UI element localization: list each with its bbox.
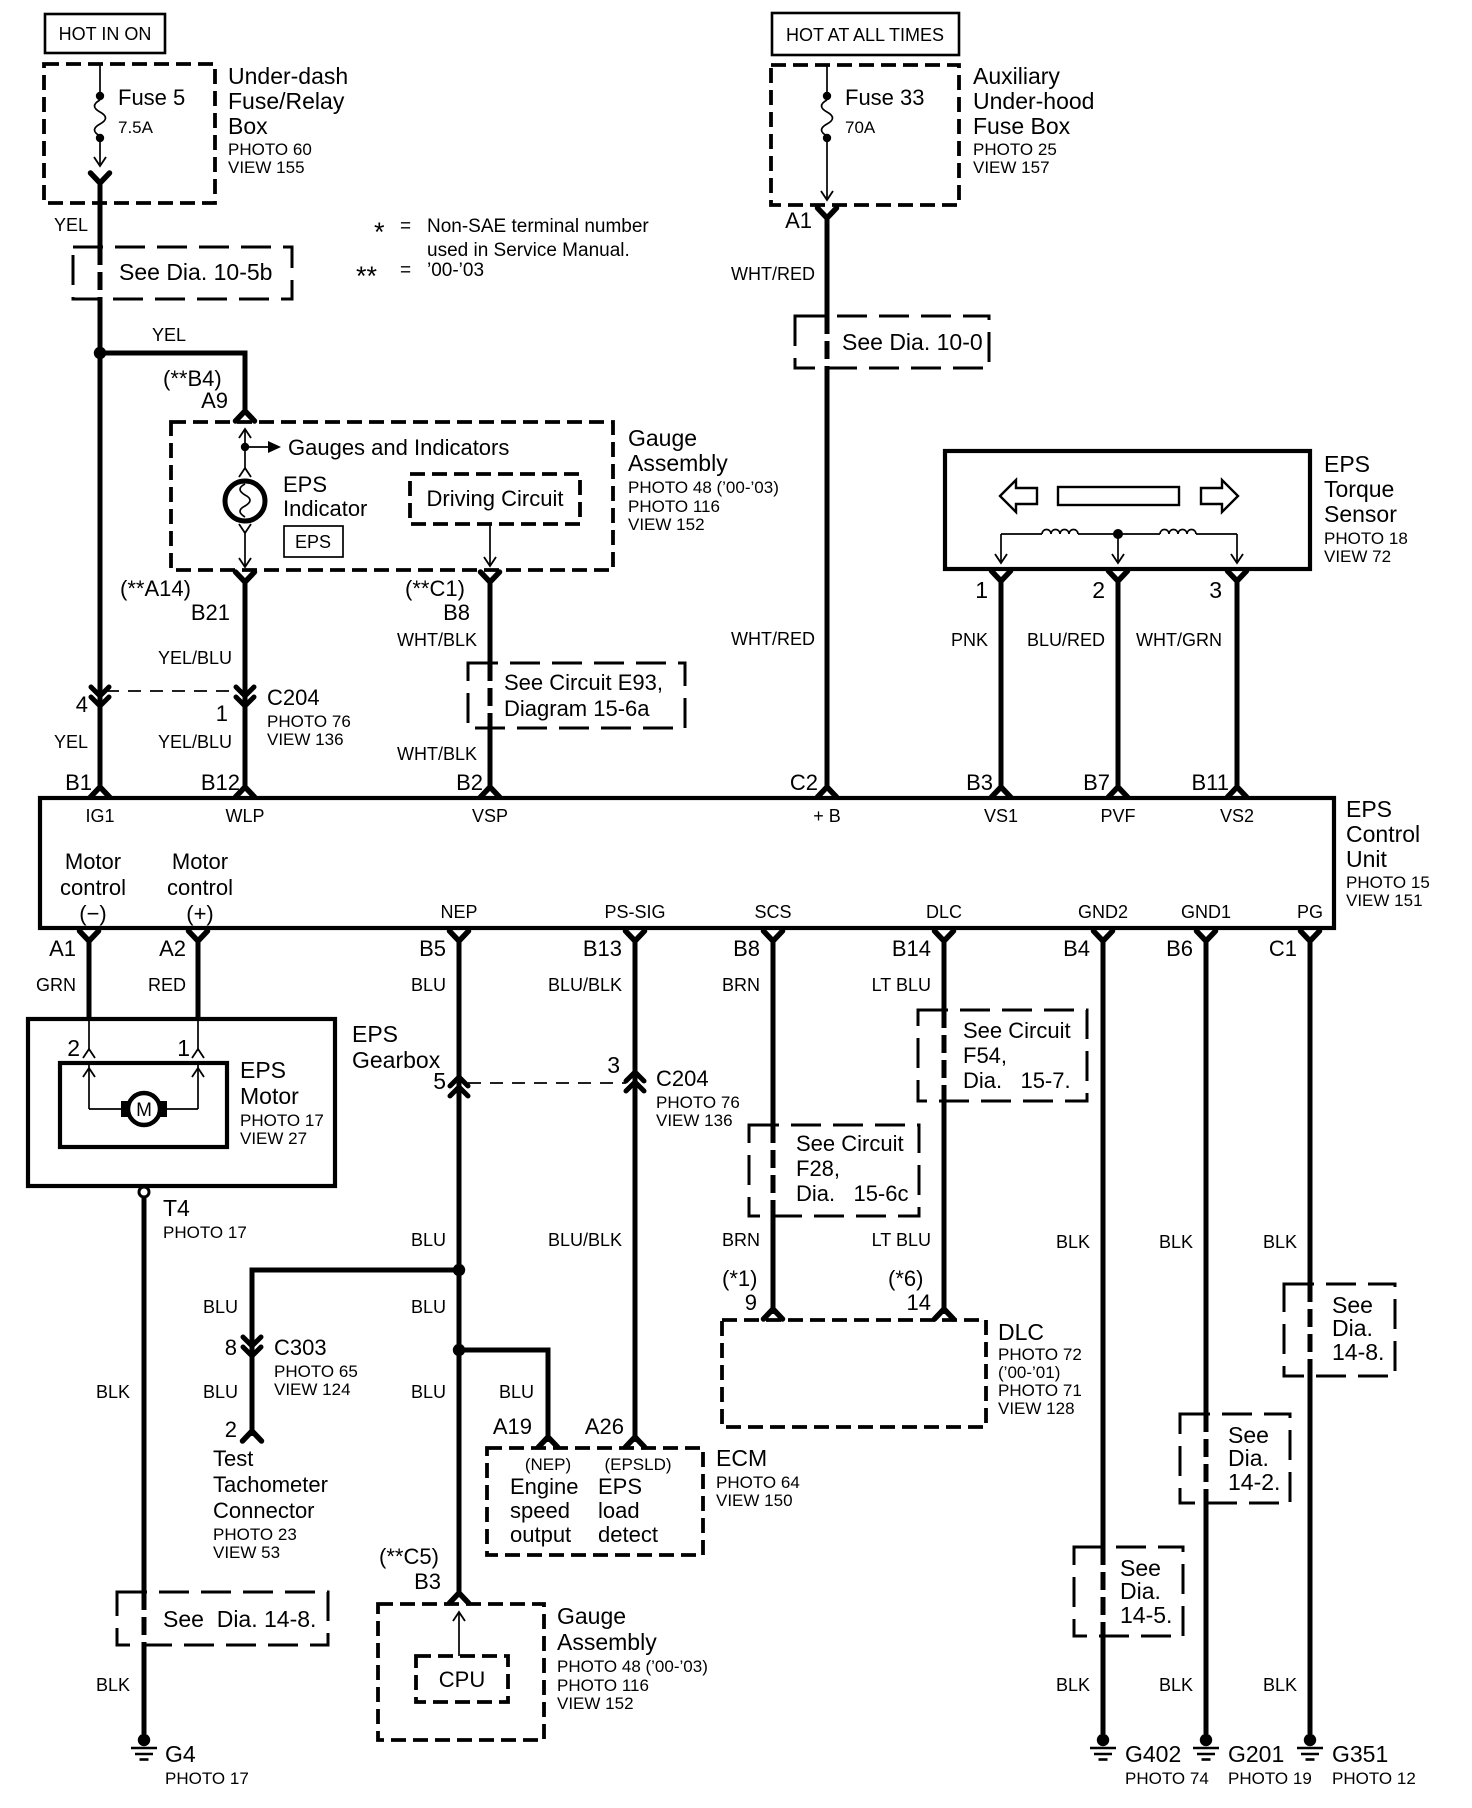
svg-text:Assembly: Assembly [557,1629,657,1655]
node gauges branch [241,443,249,451]
svg-text:2: 2 [67,1035,80,1061]
gauge assembly box [171,422,613,570]
svg-text:EPS: EPS [352,1021,398,1047]
svg-text:Test: Test [213,1446,253,1471]
svg-text:EPS: EPS [283,472,327,497]
svg-text:BLU/BLK: BLU/BLK [548,1230,622,1250]
EPS indicator label [283,472,367,521]
svg-text:14-8.: 14-8. [1332,1339,1384,1365]
svg-text:C1: C1 [1269,936,1297,961]
EPS motor box [60,1063,227,1147]
node junction B5 lower [453,1344,465,1356]
svg-text:BLU: BLU [203,1297,238,1317]
svg-text:G201: G201 [1228,1741,1284,1767]
wire label WHT/RED [731,264,815,284]
svg-text:PHOTO 64: PHOTO 64 [716,1473,800,1492]
svg-text:PHOTO 17: PHOTO 17 [240,1111,324,1130]
svg-text:Torque: Torque [1324,476,1394,502]
svg-text:1: 1 [177,1035,190,1061]
dashed link C204 [106,690,238,692]
connector B13 out of control unit [583,931,645,961]
torque sensor left arrow [1000,480,1037,512]
svg-text:GND2: GND2 [1078,902,1128,922]
svg-text:BLU: BLU [499,1382,534,1402]
connector A1 fuse 33 output [785,208,836,233]
see circuit F28 box [749,1125,919,1216]
svg-text:EPS: EPS [295,532,331,552]
wire WHT/BLK B8 to B2 [488,580,493,781]
arrow to gauges and indicators [245,435,509,460]
pin label (**B4) A9 [163,366,228,413]
svg-text:NEP: NEP [440,902,477,922]
svg-text:SCS: SCS [754,902,791,922]
svg-text:EPS: EPS [240,1057,286,1083]
svg-text:PHOTO 76: PHOTO 76 [267,712,351,731]
svg-text:Dia.: Dia. [1228,1445,1269,1471]
fuse F5 symbol [94,65,106,166]
node torque sensor center tap [1113,529,1123,539]
svg-text:PHOTO 60: PHOTO 60 [228,140,312,159]
connector pin 9 into DLC [764,1298,783,1319]
connector C303 label [274,1335,358,1399]
wire label YEL/BLU upper [158,648,232,668]
svg-text:VIEW 157: VIEW 157 [973,158,1050,177]
node junction B5 upper [453,1264,465,1276]
gauge assembly lower box [378,1604,544,1740]
torque sensor bar [1058,487,1179,505]
see dia 10-5b box [73,247,292,299]
svg-text:VIEW 53: VIEW 53 [213,1543,280,1562]
control unit motor control labels [60,849,233,926]
svg-text:B7: B7 [1083,770,1110,795]
svg-text:Under-hood: Under-hood [973,88,1094,114]
svg-text:7.5A: 7.5A [118,118,154,137]
svg-text:Gauge: Gauge [628,425,697,451]
pin label (**C1) B8 [405,576,470,625]
connector A19 into ECM [493,1414,558,1447]
svg-text:BLK: BLK [1159,1675,1193,1695]
svg-text:output: output [510,1522,571,1547]
svg-text:PHOTO 17: PHOTO 17 [165,1769,249,1788]
wire label BLK left [96,1382,130,1402]
svg-text:Dia.: Dia. [1120,1578,1161,1604]
svg-text:A19: A19 [493,1414,532,1439]
internal arrow to CPU [453,1612,465,1656]
wire BLK C1 to G351 [1308,938,1313,1734]
wire label WHT/BLK upper [397,630,477,650]
wire GRN A1 to gearbox [87,938,92,1021]
svg-text:See Circuit E93,: See Circuit E93, [504,670,663,695]
svg-text:A26: A26 [585,1414,624,1439]
svg-text:B5: B5 [419,936,446,961]
svg-text:HOT AT ALL TIMES: HOT AT ALL TIMES [786,25,944,45]
svg-text:EPS: EPS [598,1474,642,1499]
svg-text:B6: B6 [1166,936,1193,961]
svg-text:PHOTO 48 (’00-’03): PHOTO 48 (’00-’03) [557,1657,708,1676]
svg-text:BLK: BLK [1263,1675,1297,1695]
svg-text:B12: B12 [201,770,240,795]
torque sensor coil left [1001,530,1118,535]
svg-text:EPS: EPS [1324,451,1370,477]
svg-text:(−): (−) [79,901,107,926]
svg-text:GRN: GRN [36,975,76,995]
svg-text:BRN: BRN [722,975,760,995]
svg-text:PS-SIG: PS-SIG [604,902,665,922]
connector C204 label [267,685,351,749]
svg-text:Box: Box [228,113,268,139]
svg-text:PG: PG [1297,902,1323,922]
svg-text:Motor: Motor [172,849,228,874]
svg-text:G402: G402 [1125,1741,1181,1767]
under-dash fuse/relay box [44,64,215,203]
svg-text:PHOTO 19: PHOTO 19 [1228,1769,1312,1788]
connector B2 into control unit [481,776,500,797]
EPS tag box [284,526,343,557]
ECM pin functions [510,1455,672,1547]
svg-text:Gearbox: Gearbox [352,1047,441,1073]
torque sensor pin 1 [975,571,1010,603]
svg-text:PHOTO 74: PHOTO 74 [1125,1769,1209,1788]
svg-text:Sensor: Sensor [1324,501,1397,527]
svg-text:BLK: BLK [96,1382,130,1402]
svg-text:load: load [598,1498,640,1523]
pin label (*6) 14 [888,1266,931,1315]
wire PNK pin1 to B3 [951,578,1001,781]
svg-text:Assembly: Assembly [628,450,728,476]
svg-text:BLU/RED: BLU/RED [1027,630,1105,650]
svg-text:Tachometer: Tachometer [213,1472,328,1497]
connector B1 into control unit [91,776,110,797]
svg-text:YEL: YEL [54,732,88,752]
svg-text:F54,: F54, [963,1043,1007,1068]
svg-text:A1: A1 [785,208,812,233]
wire label YEL branch [152,325,186,345]
svg-text:Fuse 5: Fuse 5 [118,85,185,110]
svg-text:GND1: GND1 [1181,902,1231,922]
svg-text:2: 2 [1092,577,1105,603]
connector B7 into control unit [1109,776,1128,797]
svg-text:BLK: BLK [96,1675,130,1695]
svg-text:Connector: Connector [213,1498,315,1523]
gearbox pin 1 [177,1021,204,1061]
svg-text:Fuse/Relay: Fuse/Relay [228,88,345,114]
EPS torque sensor box [945,451,1310,569]
connector A9 at gauge assembly [236,400,255,421]
connector B12 into control unit [236,776,255,797]
svg-text:(**A14): (**A14) [120,576,191,601]
svg-text:LT BLU: LT BLU [872,975,931,995]
svg-text:C2: C2 [790,770,818,795]
svg-text:VIEW 152: VIEW 152 [557,1694,634,1713]
svg-text:control: control [167,875,233,900]
svg-text:VS1: VS1 [984,806,1018,826]
svg-text:G4: G4 [165,1741,196,1767]
svg-text:C204: C204 [267,685,320,710]
pin label (**A14) B21 [120,576,230,625]
svg-text:3: 3 [607,1052,620,1078]
wire driving circuit to B8 [484,524,496,566]
EPS gearbox box [28,1019,441,1186]
svg-text:Fuse 33: Fuse 33 [845,85,925,110]
EPS control unit box U1 [40,798,1334,928]
svg-text:G351: G351 [1332,1741,1388,1767]
see dia 14-8 left box [117,1592,328,1645]
svg-text:used in Service Manual.: used in Service Manual. [427,240,630,261]
wire BLU/RED pin2 to B7 [1027,578,1118,781]
connector B6 out of control unit [1166,931,1215,961]
fuse F33 value labels [845,85,925,137]
svg-text:Gauge: Gauge [557,1603,626,1629]
connector 5 gearbox [433,1068,468,1096]
svg-text:8: 8 [225,1335,237,1360]
svg-text:speed: speed [510,1498,570,1523]
connector C303 pin 8 [225,1335,261,1360]
ECM label [716,1445,800,1510]
torque sensor pin 3 [1209,571,1246,603]
control unit label [1346,796,1430,910]
svg-text:PHOTO 17: PHOTO 17 [163,1223,247,1242]
auxiliary under-hood fuse box [771,65,959,205]
svg-text:Dia. 15-6c: Dia. 15-6c [796,1181,909,1206]
svg-text:See Dia. 10-0: See Dia. 10-0 [842,329,983,355]
ground G351 [1297,1734,1416,1788]
wire BLU/BLK B13 down [633,938,638,1442]
connector B5 out of control unit [419,931,468,961]
wire labels BLU row 2 [203,1382,534,1402]
wire label BLK left lower [96,1675,130,1695]
connector C204 pin 1 [216,687,254,726]
svg-text:See Circuit: See Circuit [796,1131,904,1156]
svg-text:PHOTO 25: PHOTO 25 [973,140,1057,159]
svg-text:B4: B4 [1063,936,1090,961]
svg-text:14-2.: 14-2. [1228,1469,1280,1495]
DLC box [722,1320,986,1427]
note non-SAE terminal [356,216,649,291]
svg-text:YEL/BLU: YEL/BLU [158,648,232,668]
connector C1 out of control unit [1269,931,1320,961]
svg-text:B1: B1 [65,770,92,795]
connector B3 into control unit [992,776,1011,797]
svg-text:See Dia. 10-5b: See Dia. 10-5b [119,259,272,285]
svg-text:VIEW 150: VIEW 150 [716,1491,793,1510]
svg-text:M: M [136,1100,152,1121]
wire BLU branch to A19 [459,1350,548,1442]
svg-text:BLU: BLU [411,1230,446,1250]
svg-text:=: = [400,216,411,237]
connector B21 under gauge assembly [236,572,255,593]
wire WHT/GRN pin3 to B11 [1136,578,1237,781]
wire WHT/RED A1 to C2 [825,215,830,781]
svg-text:B3: B3 [966,770,993,795]
svg-text:**: ** [356,261,378,291]
wire lamp to B21 [239,524,251,567]
svg-text:+ B: + B [813,806,841,826]
svg-text:PHOTO 76: PHOTO 76 [656,1093,740,1112]
svg-text:(*6): (*6) [888,1266,923,1291]
pin label (*1) 9 [722,1266,757,1315]
svg-text:BLK: BLK [1159,1232,1193,1252]
svg-text:HOT IN ON: HOT IN ON [59,24,152,44]
svg-text:Under-dash: Under-dash [228,63,348,89]
svg-text:(**C1): (**C1) [405,576,465,601]
svg-text:BLU: BLU [411,1297,446,1317]
fuse F5 value labels [118,85,185,137]
svg-text:14-5.: 14-5. [1120,1602,1172,1628]
svg-text:*: * [374,217,385,247]
svg-text:Motor: Motor [240,1083,299,1109]
torque sensor internal drops [995,534,1243,563]
svg-text:PNK: PNK [951,630,988,650]
svg-text:VIEW 136: VIEW 136 [267,730,344,749]
svg-text:WHT/BLK: WHT/BLK [397,630,477,650]
svg-text:VIEW 151: VIEW 151 [1346,891,1423,910]
node junction A [94,347,106,359]
pin label (**C5) B3 [379,1544,441,1594]
wire RED A2 to gearbox [196,938,201,1021]
fuse F33 symbol [821,66,833,200]
svg-text:DLC: DLC [998,1319,1044,1345]
svg-text:PHOTO 15: PHOTO 15 [1346,873,1430,892]
svg-text:BLU/BLK: BLU/BLK [548,975,622,995]
svg-text:(NEP): (NEP) [525,1455,571,1474]
DLC label [998,1319,1082,1418]
wire BLK B6 to G201 [1204,938,1209,1734]
power tag HOT AT ALL TIMES [772,13,959,55]
svg-text:VIEW 128: VIEW 128 [998,1399,1075,1418]
connector pin 14 into DLC [935,1298,954,1319]
svg-text:(*1): (*1) [722,1266,757,1291]
svg-text:Indicator: Indicator [283,496,367,521]
svg-text:DLC: DLC [926,902,962,922]
svg-text:VIEW 155: VIEW 155 [228,158,305,177]
svg-text:Auxiliary: Auxiliary [973,63,1060,89]
svg-text:14: 14 [907,1290,931,1315]
svg-text:RED: RED [148,975,186,995]
svg-text:PHOTO 12: PHOTO 12 [1332,1769,1416,1788]
connector T4 [139,1187,247,1242]
wire BLK B4 to G402 [1101,938,1106,1734]
CPU box [416,1656,508,1702]
wire YEL fuse5 to junction A [98,180,103,353]
svg-text:Unit: Unit [1346,846,1388,872]
svg-text:EPS: EPS [1346,796,1392,822]
ground G402 [1090,1734,1209,1788]
svg-text:C303: C303 [274,1335,327,1360]
under-dash fuse box label [228,63,348,177]
torque sensor pin 2 [1092,571,1127,603]
power tag HOT IN ON [45,14,165,53]
svg-text:B21: B21 [191,600,230,625]
wire BLK T4 to G4 [142,1197,147,1734]
svg-text:C204: C204 [656,1066,709,1091]
svg-text:IG1: IG1 [85,806,114,826]
svg-text:PHOTO 65: PHOTO 65 [274,1362,358,1381]
see dia 10-0 box [795,316,989,368]
auxiliary fuse box label [973,63,1094,177]
gauge assembly label [628,425,779,534]
svg-text:PHOTO 23: PHOTO 23 [213,1525,297,1544]
pin labels above control unit [65,770,1229,795]
svg-text:9: 9 [745,1290,757,1315]
svg-text:A2: A2 [159,936,186,961]
svg-text:Control: Control [1346,821,1420,847]
svg-text:3: 3 [1209,577,1222,603]
connector at fuse 5 output [91,173,110,194]
svg-text:PVF: PVF [1100,806,1135,826]
gearbox pin 2 [67,1021,95,1061]
motor M1 symbol [83,1065,204,1125]
svg-text:(’00-’01): (’00-’01) [998,1363,1060,1382]
svg-text:WHT/BLK: WHT/BLK [397,744,477,764]
svg-text:WHT/GRN: WHT/GRN [1136,630,1222,650]
wire labels lower left [54,732,477,764]
svg-text:(+): (+) [186,901,214,926]
svg-text:YEL/BLU: YEL/BLU [158,732,232,752]
wire LT BLU B14 down [942,938,947,1314]
connector B8 out of control unit [733,931,782,961]
internal arrow from A9 [239,429,251,447]
svg-text:1: 1 [216,701,228,726]
svg-text:PHOTO 72: PHOTO 72 [998,1345,1082,1364]
svg-text:70A: 70A [845,118,876,137]
svg-text:See Dia. 14-8.: See Dia. 14-8. [163,1606,316,1632]
svg-text:2: 2 [225,1417,237,1442]
ground G201 [1193,1734,1312,1788]
connector B11 into control unit [1228,776,1247,797]
svg-text:VS2: VS2 [1220,806,1254,826]
wire label YEL [54,215,88,235]
wire labels row mid [411,1230,1297,1252]
connector B14 out of control unit [892,931,954,961]
wire YEL junction A to B1 [98,353,103,781]
svg-text:B3: B3 [414,1569,441,1594]
svg-text:Diagram 15-6a: Diagram 15-6a [504,696,650,721]
svg-text:BLU: BLU [411,975,446,995]
svg-text:Dia.: Dia. [1332,1315,1373,1341]
gauge assembly lower label [557,1603,708,1713]
torque sensor right arrow [1201,480,1238,512]
svg-text:See Circuit: See Circuit [963,1018,1071,1043]
control unit top pin names [85,806,1254,826]
see dia 14-2 box [1180,1414,1290,1503]
connector B4 out of control unit [1063,931,1112,961]
svg-text:(**C5): (**C5) [379,1544,439,1569]
svg-text:A1: A1 [49,936,76,961]
ground G4 [131,1734,249,1788]
svg-text:BLU: BLU [411,1382,446,1402]
svg-text:B2: B2 [456,770,483,795]
svg-text:BLK: BLK [1056,1675,1090,1695]
wire labels BLK bottom [1056,1675,1297,1695]
svg-text:PHOTO 71: PHOTO 71 [998,1381,1082,1400]
svg-text:Driving Circuit: Driving Circuit [427,486,564,511]
see circuit E93 box [468,663,685,728]
svg-text:Non-SAE terminal number: Non-SAE terminal number [427,216,649,237]
svg-text:Dia. 15-7.: Dia. 15-7. [963,1068,1071,1093]
svg-text:PHOTO 48 (’00-’03): PHOTO 48 (’00-’03) [628,478,779,497]
svg-text:B8: B8 [443,600,470,625]
svg-text:WHT/RED: WHT/RED [731,264,815,284]
svg-text:B14: B14 [892,936,931,961]
svg-text:LT BLU: LT BLU [872,1230,931,1250]
svg-text:PHOTO 18: PHOTO 18 [1324,529,1408,548]
connector C2 into control unit [818,776,837,797]
svg-text:4: 4 [76,692,88,717]
connector 3 C204 [607,1052,644,1091]
svg-text:Engine: Engine [510,1474,579,1499]
svg-text:Motor: Motor [65,849,121,874]
svg-text:ECM: ECM [716,1445,767,1471]
